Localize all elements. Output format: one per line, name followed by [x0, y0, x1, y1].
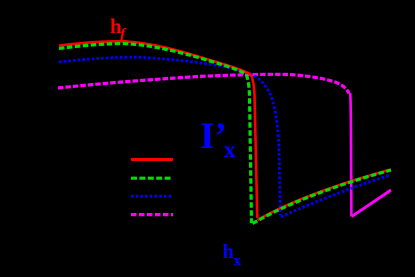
magenta recovery — [352, 190, 391, 217]
magenta vertical drop — [350, 93, 351, 217]
magenta curve main — [58, 74, 349, 93]
legend green dashed — [131, 177, 173, 180]
blue recovery — [281, 175, 390, 217]
blue curve main — [59, 57, 280, 215]
red curve main — [59, 41, 257, 218]
green recovery — [253, 170, 392, 224]
legend blue dotted — [131, 195, 173, 198]
green curve main — [59, 44, 252, 224]
svg-text:x: x — [224, 137, 236, 162]
legend magenta dash — [131, 213, 173, 216]
red recovery — [258, 170, 392, 221]
svg-text:h: h — [223, 241, 234, 263]
svg-text:I’: I’ — [200, 116, 227, 157]
legend red solid — [131, 158, 173, 161]
svg-text:x: x — [234, 253, 242, 269]
